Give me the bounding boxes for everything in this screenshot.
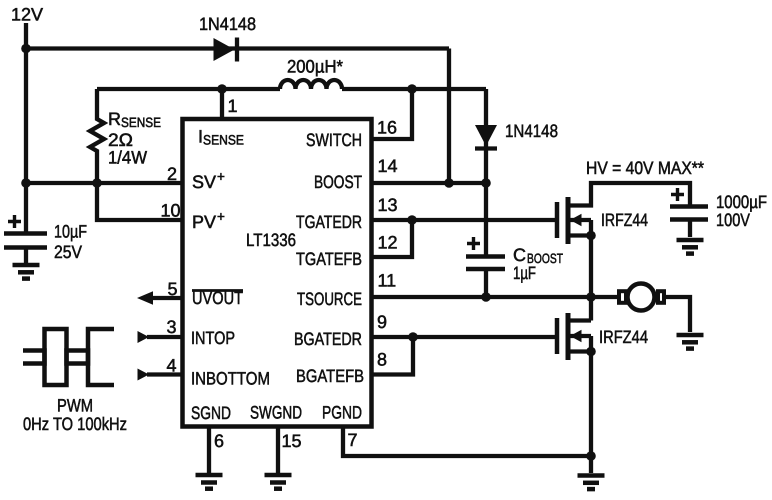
wire pin9 BGATEDR to Q2 gate bbox=[370, 335, 555, 339]
junction CBOOST / TSOURCE bbox=[481, 292, 491, 302]
svg-text:9: 9 bbox=[377, 312, 387, 332]
diode D2 1N4148 bbox=[475, 125, 497, 146]
svg-text:BGATEFB: BGATEFB bbox=[296, 366, 364, 386]
svg-text:12: 12 bbox=[378, 233, 398, 253]
op-amp U1 LT1336 box bbox=[183, 119, 372, 427]
svg-text:200µH*: 200µH* bbox=[287, 57, 343, 77]
svg-text:7: 7 bbox=[348, 430, 358, 450]
wire pin4 INBOTTOM with arrow bbox=[147, 372, 181, 376]
svg-text:11: 11 bbox=[378, 271, 397, 291]
wire D2 vertical bbox=[484, 89, 488, 183]
svg-text:0Hz TO 100kHz: 0Hz TO 100kHz bbox=[23, 414, 127, 434]
svg-text:TGATEDR: TGATEDR bbox=[296, 212, 362, 232]
ground (motor) bbox=[677, 333, 704, 338]
svg-text:6: 6 bbox=[214, 431, 224, 451]
svg-text:R: R bbox=[108, 109, 121, 129]
PWM waveform symbol bbox=[23, 351, 114, 386]
svg-text:10µF: 10µF bbox=[54, 222, 87, 242]
wire pin3 INTOP with arrow bbox=[147, 335, 181, 339]
svg-text:BOOST: BOOST bbox=[314, 172, 362, 192]
svg-text:IRFZ44: IRFZ44 bbox=[599, 327, 648, 347]
capacitor C1 10uF plates bbox=[4, 231, 47, 236]
wire pin13 TGATEDR to Q1 gate bbox=[370, 218, 555, 222]
svg-text:INTOP: INTOP bbox=[191, 328, 235, 348]
junction rail / switch riser bbox=[407, 84, 417, 94]
svg-text:3: 3 bbox=[166, 317, 176, 337]
capacitor CBOOST vertical and plates bbox=[484, 183, 488, 255]
junction TSOURCE / motor node bbox=[586, 292, 596, 302]
svg-text:INBOTTOM: INBOTTOM bbox=[191, 369, 270, 389]
wire C1 to ground bbox=[24, 248, 28, 264]
svg-text:1/4W: 1/4W bbox=[108, 148, 147, 168]
wire 12V vertical rail bbox=[24, 23, 28, 232]
wire pin16 SWITCH bbox=[370, 89, 412, 139]
svg-text:BGATEDR: BGATEDR bbox=[294, 329, 362, 349]
junction bottom rail / Q2 source bbox=[586, 451, 596, 461]
motor M1 bbox=[591, 295, 617, 299]
svg-text:TSOURCE: TSOURCE bbox=[297, 289, 362, 309]
junction 12V / top rail bbox=[21, 44, 31, 54]
svg-text:14: 14 bbox=[378, 156, 398, 176]
svg-text:2: 2 bbox=[167, 164, 177, 184]
capacitor C2 plus sign bbox=[671, 188, 684, 201]
junction 12V rail / SV+ bbox=[21, 178, 31, 188]
wire pin8 BGATEFB bbox=[370, 337, 413, 375]
svg-text:LT1336: LT1336 bbox=[246, 230, 296, 250]
junction rail / pin1 bbox=[217, 84, 227, 94]
svg-text:16: 16 bbox=[377, 118, 397, 138]
svg-text:SWITCH: SWITCH bbox=[306, 130, 362, 150]
svg-text:SWGND: SWGND bbox=[250, 403, 302, 423]
transistor Q1 IRFZ44 top bbox=[555, 202, 560, 238]
ground (C2) bbox=[677, 238, 704, 243]
ground (bottom rail) bbox=[578, 473, 605, 478]
svg-text:SGND: SGND bbox=[191, 403, 231, 423]
wire boost feed vertical bbox=[447, 49, 451, 184]
svg-text:+: + bbox=[217, 209, 225, 224]
wire Q2 source to ground bbox=[589, 456, 593, 473]
svg-text:10: 10 bbox=[160, 201, 180, 221]
wire pin2 SV+ bbox=[26, 181, 181, 185]
junction pin13 / pin12 bbox=[407, 215, 417, 225]
svg-text:1µF: 1µF bbox=[513, 263, 536, 283]
svg-text:PWM: PWM bbox=[57, 396, 93, 416]
svg-text:13: 13 bbox=[378, 195, 398, 215]
ground (pin15) bbox=[265, 473, 292, 478]
svg-text:12V: 12V bbox=[11, 5, 43, 25]
svg-text:15: 15 bbox=[282, 431, 302, 451]
capacitor CBOOST plus sign bbox=[467, 237, 480, 250]
capacitor C1 plus sign bbox=[8, 215, 21, 228]
svg-text:SV: SV bbox=[192, 172, 216, 192]
svg-text:100V: 100V bbox=[716, 210, 750, 230]
svg-text:C: C bbox=[513, 245, 526, 265]
svg-text:8: 8 bbox=[377, 350, 387, 370]
wire pin14 BOOST bbox=[370, 181, 486, 185]
resistor RSENSE bbox=[90, 89, 104, 183]
ground (pin6) bbox=[196, 473, 223, 478]
wire pin15 SWGND to ground bbox=[276, 425, 280, 473]
svg-text:PGND: PGND bbox=[322, 403, 362, 423]
wire pin6 SGND to ground bbox=[207, 425, 211, 473]
svg-text:1N4148: 1N4148 bbox=[199, 14, 256, 34]
svg-text:1: 1 bbox=[228, 96, 238, 116]
wire pin11 TSOURCE bbox=[370, 295, 591, 299]
svg-text:+: + bbox=[217, 169, 225, 184]
svg-text:SENSE: SENSE bbox=[121, 115, 161, 130]
junction boost feed / pin14 bbox=[444, 178, 454, 188]
diode D1 1N4148 bbox=[214, 38, 235, 61]
capacitor C2 1000uF plates bbox=[670, 204, 708, 209]
inductor L1 200uH bbox=[280, 80, 342, 89]
svg-text:25V: 25V bbox=[54, 242, 82, 262]
junction pin9 / pin8 bbox=[408, 332, 418, 342]
svg-text:TGATEFB: TGATEFB bbox=[296, 249, 362, 269]
svg-text:PV: PV bbox=[192, 212, 216, 232]
wire pin12 TGATEFB bbox=[370, 220, 412, 257]
wire pin10 PV+ bbox=[97, 183, 181, 220]
ground (C1) bbox=[13, 263, 40, 268]
junction pin14 / D2 / CBOOST bbox=[481, 178, 491, 188]
wire pin7 PGND bottom rail bbox=[343, 425, 591, 456]
wire pin5 UVOUT with arrow bbox=[150, 296, 181, 300]
wire pin1 riser bbox=[220, 89, 224, 118]
svg-text:1000µF: 1000µF bbox=[716, 192, 767, 212]
transistor Q2 IRFZ44 bottom bbox=[555, 318, 560, 354]
svg-text:HV = 40V MAX**: HV = 40V MAX** bbox=[586, 158, 704, 178]
wire top rail to boost bbox=[26, 46, 449, 50]
svg-text:1N4148: 1N4148 bbox=[505, 121, 558, 141]
junction SV+ / RSENSE bbox=[92, 178, 102, 188]
wire inductor rail bbox=[97, 87, 280, 91]
svg-text:SENSE: SENSE bbox=[203, 133, 244, 148]
svg-text:IRFZ44: IRFZ44 bbox=[601, 210, 648, 230]
